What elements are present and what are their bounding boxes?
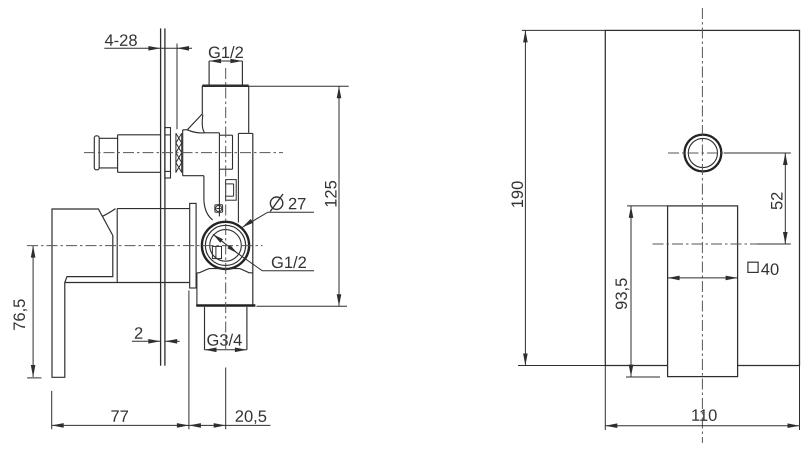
dimension 40 arrows	[668, 277, 738, 279]
dimension G3/4	[205, 349, 247, 351]
svg-text:110: 110	[691, 407, 717, 425]
centerlines right view	[653, 8, 758, 443]
dimension 93,5	[626, 206, 668, 377]
boss pedestal	[197, 269, 253, 306]
leader Ø27	[242, 212, 314, 227]
front plate rectangle	[605, 30, 799, 365]
handle lever	[52, 209, 116, 378]
dimension 4-28	[104, 44, 192, 130]
svg-text:190: 190	[509, 181, 527, 209]
dimension 2 (plate thickness)	[132, 340, 180, 342]
body internal steps	[205, 133, 253, 223]
svg-text:G1/2: G1/2	[271, 254, 307, 272]
body right edge	[252, 133, 254, 305]
diameter line with arrows	[213, 234, 237, 253]
slot inside circle	[212, 246, 221, 258]
funnel transition	[183, 114, 205, 133]
svg-text:40: 40	[761, 261, 779, 279]
svg-text:27: 27	[288, 195, 306, 213]
flange behind plate	[165, 128, 171, 178]
handle hub	[65, 209, 190, 283]
svg-text:125: 125	[322, 180, 340, 208]
check-valve horizontal pipe	[94, 135, 160, 173]
front handle rectangle	[668, 206, 738, 377]
set screw	[215, 205, 223, 212]
svg-text:52: 52	[768, 192, 786, 210]
valve upper block	[202, 86, 248, 133]
svg-text:4-28: 4-28	[104, 32, 137, 50]
dimension 110	[605, 425, 799, 427]
bottom dimensions 77 / 20,5	[52, 291, 271, 430]
svg-text:76,5: 76,5	[11, 299, 29, 331]
dimension 52	[724, 153, 791, 244]
plate side extension lines	[605, 366, 799, 431]
outlet boss circle Ø27	[202, 222, 249, 269]
pipe thread	[176, 133, 182, 172]
svg-text:20,5: 20,5	[235, 408, 267, 426]
svg-text:93,5: 93,5	[613, 278, 631, 310]
dimension 190	[518, 30, 605, 365]
top inlet pipe G1/2	[209, 61, 242, 85]
centerlines left view	[27, 68, 283, 349]
front outlet circle	[685, 135, 722, 172]
svg-text:77: 77	[110, 408, 128, 426]
body outline left	[183, 130, 213, 220]
dimension 125	[249, 86, 349, 306]
bottom outlet pipe G3/4	[205, 307, 247, 350]
svg-text:G1/2: G1/2	[208, 44, 244, 62]
svg-text:G3/4: G3/4	[206, 332, 242, 350]
square-40 label	[748, 262, 758, 272]
escutcheon sleeve	[190, 203, 196, 288]
dimension 76,5	[32, 246, 34, 377]
leader G1/2 side outlet	[237, 253, 314, 271]
svg-text:2: 2	[134, 325, 143, 343]
body bottom bold	[196, 304, 255, 307]
cartridge clip	[226, 180, 237, 201]
dimension G1/2 top	[209, 60, 242, 62]
wall plate	[161, 28, 165, 365]
